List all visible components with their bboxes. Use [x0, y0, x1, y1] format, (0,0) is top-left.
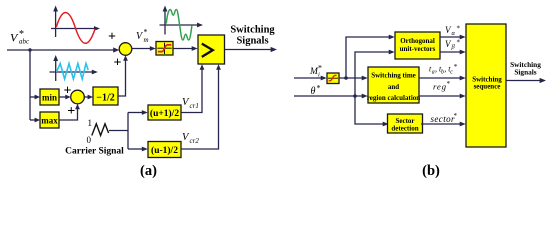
- svg-text:*: *: [454, 112, 458, 120]
- node theta* label: [311, 84, 321, 98]
- wire switching sequence output: [506, 78, 546, 83]
- block orthogonal unit-vectors: [395, 32, 440, 59]
- svg-text:sequence: sequence: [474, 83, 501, 91]
- block (u-1)/2: [148, 142, 181, 158]
- svg-text:Switching: Switching: [230, 25, 275, 36]
- node reg* label: [433, 80, 451, 92]
- block switching sequence: [466, 24, 506, 147]
- wire theta* to switching time block: [294, 94, 368, 99]
- wire limiter to switching time block: [339, 76, 368, 81]
- svg-text:region calculation: region calculation: [367, 94, 420, 102]
- wire Mi branch up to orthogonal block: [346, 35, 395, 78]
- wire summer S1 to saturation block: [132, 46, 156, 51]
- wire Valpha to switching sequence: [440, 35, 466, 40]
- summer S1 circle: [119, 43, 132, 56]
- node sector* label: [431, 112, 458, 124]
- scope plot: carrier triangle (cyan) axes: [50, 55, 98, 81]
- node Mi* label: [309, 64, 322, 79]
- block -1/2: [93, 87, 118, 105]
- waveform: red sine wave: [56, 13, 95, 44]
- node junction on main wire: [28, 48, 31, 51]
- svg-text:−1/2: −1/2: [96, 93, 114, 104]
- waveform: green sine plus third harmonic: [166, 10, 192, 41]
- node junction Mi line: [344, 76, 348, 80]
- node Vbeta* label: [445, 39, 461, 51]
- svg-text:(b): (b): [422, 163, 440, 179]
- svg-text:detection: detection: [391, 124, 418, 132]
- svg-text:Switching time: Switching time: [371, 72, 416, 80]
- svg-text:*: *: [457, 39, 461, 47]
- wire max to summer S2: [59, 104, 80, 120]
- svg-text:+: +: [108, 30, 116, 45]
- svg-text:m: m: [144, 36, 149, 44]
- wire sector to switching sequence: [421, 122, 466, 127]
- svg-text:cr2: cr2: [190, 137, 200, 145]
- wire Mi* into limiter: [294, 76, 327, 81]
- wire branch down to min/max: [29, 50, 31, 120]
- wire comparator output switching signals (a): [225, 47, 278, 52]
- svg-text:*: *: [457, 25, 461, 33]
- svg-text:abc: abc: [19, 38, 30, 46]
- wire branch to (u-1)/2: [128, 147, 148, 152]
- wire reg to switching sequence: [419, 94, 466, 99]
- node junction theta line: [353, 94, 357, 98]
- wire into max block: [30, 118, 40, 123]
- svg-text:Orthogonal: Orthogonal: [400, 37, 435, 45]
- block switching time and region calculation: [367, 67, 420, 103]
- svg-text:1: 1: [88, 118, 93, 128]
- label switching signals (b): [510, 60, 541, 77]
- svg-text:sector: sector: [431, 114, 455, 124]
- wire theta branch up to orthogonal block: [355, 50, 395, 96]
- block limiter (b): [327, 73, 339, 84]
- node Valpha* label: [445, 25, 461, 37]
- wire saturation block to comparator: [173, 46, 198, 51]
- wire Vcr2 to comparator: [181, 64, 221, 149]
- scope plot: modulating wave (green) axes: [160, 6, 204, 35]
- block (u+1)/2: [148, 105, 181, 120]
- svg-text:0: 0: [87, 135, 92, 145]
- block saturation (limiter): [156, 42, 173, 56]
- svg-text:V: V: [10, 31, 19, 45]
- wire Vcr1 to comparator: [181, 64, 204, 112]
- svg-text:+: +: [67, 104, 75, 119]
- svg-text:*: *: [317, 84, 321, 93]
- wire Vbeta to switching sequence: [440, 50, 466, 55]
- wire carrier to branch: [109, 130, 128, 132]
- scope plot: reference sine (red) axes: [51, 6, 100, 38]
- svg-text:cr1: cr1: [190, 102, 199, 110]
- node Vcr2 label: [182, 132, 199, 145]
- wire main input Vabc to summer S1: [7, 47, 119, 52]
- svg-text:*: *: [454, 63, 458, 71]
- wire into min block: [30, 95, 40, 100]
- svg-text:unit-vectors: unit-vectors: [400, 45, 436, 53]
- svg-text:Signals: Signals: [514, 68, 536, 77]
- svg-text:α: α: [452, 30, 456, 37]
- node ta tb tc* label: [429, 63, 458, 76]
- block max: [40, 112, 59, 128]
- wire summer S2 to -1/2 block: [84, 95, 93, 100]
- svg-text:(u-1)/2: (u-1)/2: [151, 145, 178, 156]
- wire theta branch down to sector block: [355, 96, 389, 126]
- svg-text:c: c: [450, 69, 453, 75]
- wire branch to (u+1)/2: [128, 110, 148, 115]
- wire min to summer S2: [59, 95, 71, 100]
- svg-text:Carrier Signal: Carrier Signal: [65, 147, 124, 157]
- node Vcr1 label: [182, 97, 199, 110]
- svg-text:reg: reg: [433, 82, 447, 92]
- wire carrier branch vertical: [127, 113, 129, 150]
- wire -1/2 block up to summer S1: [118, 55, 128, 96]
- svg-text:(u+1)/2: (u+1)/2: [150, 108, 179, 119]
- block min: [40, 89, 59, 105]
- svg-text:Signals: Signals: [236, 36, 268, 47]
- node Vabc* input label: [10, 29, 30, 46]
- node Vm* label: [136, 28, 149, 45]
- label switching signals (a): [230, 25, 275, 47]
- block comparator: [198, 35, 225, 64]
- wire ta tb tc to switching sequence: [419, 76, 466, 81]
- svg-text:and: and: [388, 83, 399, 91]
- svg-text:+: +: [114, 56, 122, 71]
- svg-text:(a): (a): [140, 163, 157, 179]
- svg-text:max: max: [41, 116, 58, 126]
- svg-text:min: min: [42, 93, 57, 103]
- waveform: cyan triangle carrier: [57, 64, 89, 80]
- block sector detection: [388, 114, 423, 133]
- summer S2 circle: [71, 90, 85, 104]
- svg-text:*: *: [447, 80, 451, 88]
- svg-text:β: β: [451, 44, 456, 51]
- carrier signal zigzag icon: [92, 124, 109, 136]
